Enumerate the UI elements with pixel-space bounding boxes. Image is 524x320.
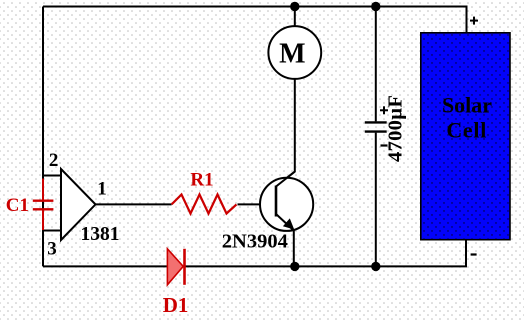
svg-text:R1: R1 — [190, 170, 213, 191]
svg-text:2N3904: 2N3904 — [222, 230, 288, 252]
svg-text:1: 1 — [97, 179, 107, 200]
svg-text:1381: 1381 — [81, 224, 120, 245]
svg-text:D1: D1 — [163, 293, 189, 317]
svg-text:M: M — [279, 38, 305, 69]
svg-text:4700µF: 4700µF — [385, 95, 407, 162]
svg-text:2: 2 — [49, 150, 59, 171]
svg-text:3: 3 — [47, 239, 57, 260]
svg-text:C1: C1 — [6, 195, 29, 216]
svg-text:Cell: Cell — [446, 117, 487, 142]
svg-text:Solar: Solar — [442, 92, 492, 117]
